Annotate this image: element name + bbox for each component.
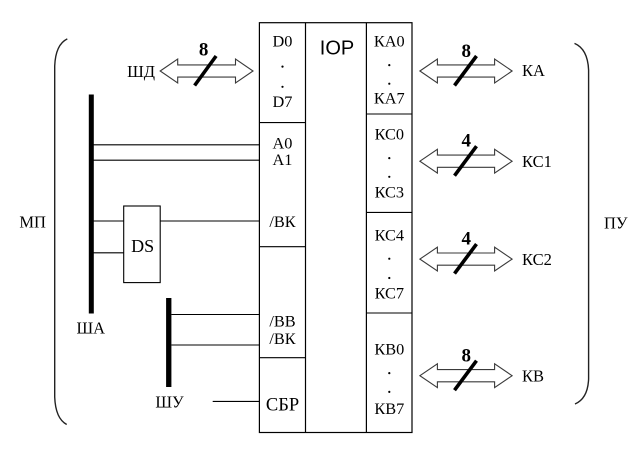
left brace МП [55, 39, 68, 425]
svg-text:ШД: ШД [127, 62, 155, 81]
svg-text:8: 8 [462, 346, 472, 367]
svg-text:КВ0: КВ0 [374, 339, 404, 358]
svg-text:КС3: КС3 [375, 183, 404, 202]
wire A1 [92, 159, 259, 161]
svg-text:4: 4 [462, 131, 472, 152]
dots КВ [388, 372, 390, 374]
right column separator under КА7 [366, 113, 412, 115]
wire DS to /ВК [160, 220, 259, 222]
svg-text:КС2: КС2 [522, 250, 552, 269]
svg-text:D7: D7 [273, 92, 293, 111]
svg-text:8: 8 [462, 41, 472, 62]
left column separator under D7 [259, 122, 305, 124]
svg-text:КВ7: КВ7 [374, 399, 404, 418]
svg-text:КС7: КС7 [375, 284, 404, 303]
svg-text:D0: D0 [273, 32, 293, 51]
svg-text:/ВВ: /ВВ [269, 311, 295, 330]
svg-text:КС4: КС4 [375, 226, 404, 245]
svg-text:КА0: КА0 [374, 31, 405, 50]
bus arrow КС2 [420, 244, 512, 274]
IOP block outline U1 [259, 23, 412, 433]
svg-text:МП: МП [19, 213, 46, 232]
svg-text:КС1: КС1 [522, 152, 552, 171]
right brace ПУ [575, 43, 589, 404]
left column separator under /ВК [259, 246, 305, 248]
dots КА [388, 64, 390, 66]
bus arrow КВ [420, 361, 512, 391]
wire /ВК [171, 344, 259, 346]
right column separator under КС7 [366, 312, 412, 314]
svg-text:КС0: КС0 [375, 124, 404, 143]
bus ША (address bus bar) [89, 95, 94, 314]
svg-text:КВ: КВ [522, 366, 544, 385]
svg-text:ПУ: ПУ [604, 214, 628, 233]
svg-text:8: 8 [199, 40, 209, 61]
bus arrow КС1 [420, 146, 512, 176]
bus ШУ (control bus bar) [166, 298, 171, 387]
bus arrow КА [420, 56, 512, 86]
wire ША to DS input 2 [92, 252, 124, 254]
dots D [281, 66, 283, 68]
svg-text:IOP: IOP [320, 38, 354, 60]
wire A0 [92, 144, 259, 146]
svg-text:ША: ША [77, 319, 106, 338]
left column separator under /ВВ /ВК [259, 357, 305, 359]
svg-text:/ВК: /ВК [269, 212, 295, 231]
right column separator under КС3 [366, 211, 412, 213]
dots КС4-7 [388, 258, 390, 260]
svg-text:4: 4 [462, 229, 472, 250]
IOP inner divider left [305, 23, 307, 433]
svg-text:СБР: СБР [266, 395, 299, 415]
svg-text:КА: КА [522, 61, 545, 80]
IOP inner divider right [365, 23, 367, 433]
decoder DS [124, 206, 161, 283]
bus arrow ШД [160, 56, 253, 86]
wire СБР [213, 400, 260, 402]
svg-text:КА7: КА7 [374, 88, 405, 107]
svg-text:DS: DS [131, 236, 154, 256]
wire ША to DS input 1 [92, 220, 124, 222]
svg-text:ШУ: ШУ [155, 393, 184, 412]
svg-text:/ВК: /ВК [269, 329, 295, 348]
wire /ВВ [171, 314, 259, 316]
svg-text:A1: A1 [273, 150, 293, 169]
dots КС0-3 [388, 157, 390, 159]
